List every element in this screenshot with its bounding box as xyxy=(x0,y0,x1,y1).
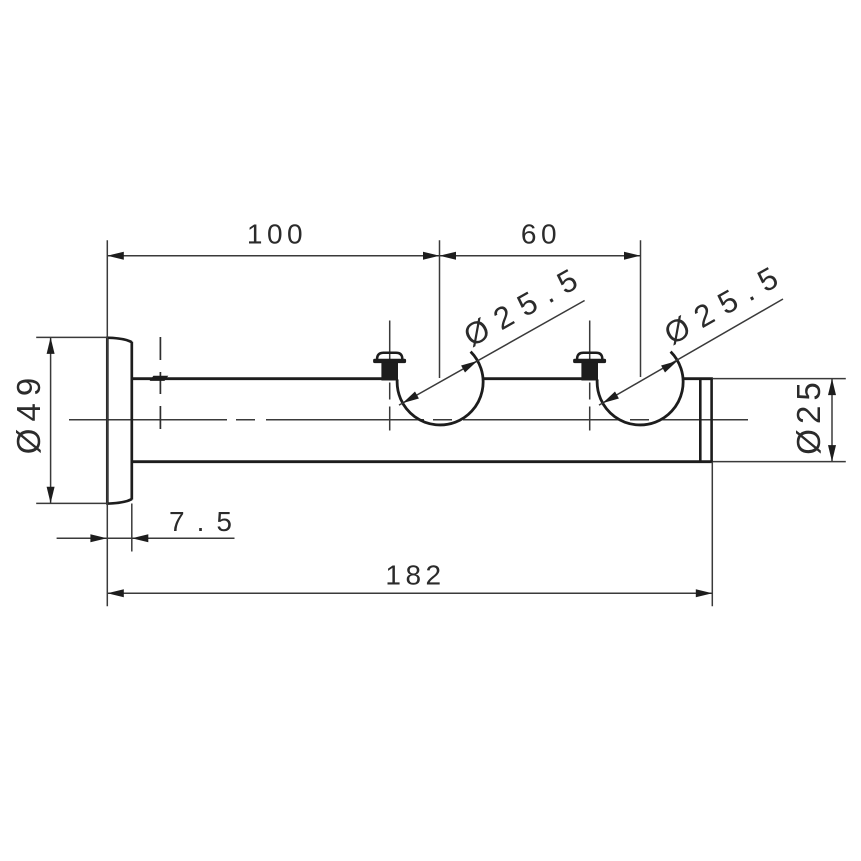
extension line body top for dia25 xyxy=(713,378,846,380)
arrow dia25.5 second lower xyxy=(603,392,619,404)
arrow dia49 top xyxy=(47,337,55,354)
leader line dia25.5 second xyxy=(599,299,783,405)
body top edge segment 1 xyxy=(132,377,398,380)
dimension 7.5 middle segment xyxy=(107,537,132,539)
flange right edge xyxy=(130,342,133,500)
arrow dia25.5 first upper xyxy=(461,361,477,373)
arrow dia25.5 first lower xyxy=(403,392,419,404)
end cap outer line xyxy=(710,379,713,462)
body bottom edge xyxy=(132,460,713,463)
flange bottom edge xyxy=(106,499,132,504)
dimension 7.5 left approach line xyxy=(57,537,107,539)
dimension line 100 xyxy=(107,255,439,257)
extension line left (flange face) xyxy=(106,240,108,606)
hidden fastener mark on body top edge xyxy=(150,376,169,381)
extension line flange bottom for dia49 xyxy=(36,502,107,504)
extension line flange back xyxy=(131,504,133,552)
extension line flange top for dia49 xyxy=(36,336,107,338)
hidden hole centerline near flange xyxy=(159,337,161,429)
extension line body bottom for dia25 xyxy=(713,461,846,463)
svg-text:Ø49: Ø49 xyxy=(10,371,47,454)
screw 1 shank xyxy=(381,363,398,381)
leader line dia25.5 first xyxy=(399,301,585,406)
arrow 100 left xyxy=(107,252,124,260)
horizontal centerline xyxy=(69,419,748,421)
extension line saddle 1 center xyxy=(439,240,441,378)
arrow dia49 bottom xyxy=(47,487,55,504)
screw 1 centerline xyxy=(389,321,391,363)
arrow 7.5 left xyxy=(90,534,107,542)
arrow 182 left xyxy=(107,589,124,597)
screw 1 head dome xyxy=(377,353,402,360)
dimension line 60 xyxy=(440,255,641,257)
body top edge segment 3 xyxy=(683,377,713,380)
dimension 7.5 right line xyxy=(132,537,235,539)
svg-text:7.5: 7.5 xyxy=(169,506,244,537)
flange top edge xyxy=(106,338,132,343)
arrow dia25.5 second upper xyxy=(661,361,677,373)
screw 2 flange plate xyxy=(573,359,606,363)
end cap inner line xyxy=(699,379,702,462)
arrow 7.5 right xyxy=(132,534,149,542)
arrow 60 right xyxy=(624,252,641,260)
arrow 60 left xyxy=(440,252,457,260)
screw 1 flange plate xyxy=(373,359,406,363)
saddle cutout arc 2 xyxy=(597,352,683,425)
arrow dia25 top xyxy=(828,379,836,396)
dimension line 182 xyxy=(107,592,712,594)
svg-text:100: 100 xyxy=(247,219,307,250)
extension line right end xyxy=(711,462,713,606)
dimension line dia25 xyxy=(831,379,833,462)
svg-text:Ø25.5: Ø25.5 xyxy=(658,255,792,351)
svg-text:Ø25: Ø25 xyxy=(790,377,827,454)
arrow 100 right xyxy=(423,252,440,260)
body top edge segment 2 xyxy=(483,377,598,380)
arrow dia25 bottom xyxy=(828,445,836,462)
saddle cutout arc 1 xyxy=(397,352,483,425)
svg-text:182: 182 xyxy=(385,560,445,591)
screw 2 centerline xyxy=(589,321,591,363)
extension line saddle 2 center xyxy=(640,240,642,377)
flange left edge xyxy=(106,338,109,504)
dimension line dia49 xyxy=(50,337,52,503)
svg-text:Ø25.5: Ø25.5 xyxy=(458,257,592,353)
screw 2 head dome xyxy=(577,353,602,360)
screw 2 shank xyxy=(581,363,598,381)
svg-text:60: 60 xyxy=(521,219,561,250)
arrow 182 right xyxy=(696,589,713,597)
